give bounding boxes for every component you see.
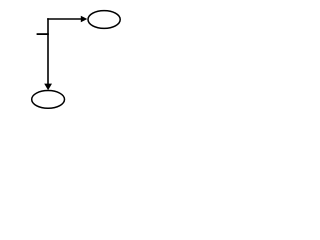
node B (bottom state ellipse): [32, 91, 65, 109]
wire: stub tick on vertical edge: [37, 33, 49, 35]
wire: vertical edge segment into node B: [47, 18, 49, 84]
arrowhead into node B: [44, 84, 52, 91]
arrowhead into node A: [81, 16, 88, 23]
wire: horizontal edge segment into node A: [47, 18, 81, 20]
node A (top-right state ellipse): [88, 11, 120, 29]
